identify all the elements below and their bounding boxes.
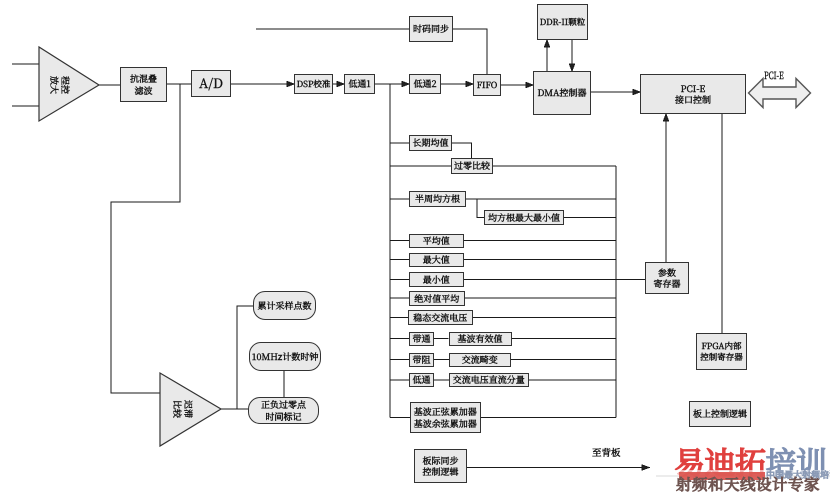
amplifier 程控放大 triangle	[39, 47, 99, 121]
rounded 累计采样点数	[253, 291, 316, 320]
wire row accumulators	[390, 417, 616, 419]
block 过零比较	[451, 158, 493, 174]
wire row min to param reg	[390, 279, 645, 281]
rounded 10MHz计数时钟	[249, 342, 321, 371]
wire DMA to DDR (arrow up)	[546, 46, 548, 71]
label 迟滞比较 (rotated)	[172, 386, 194, 432]
wire amp to filter	[99, 84, 120, 86]
wire input line 1	[12, 63, 39, 65]
wire row max	[390, 259, 616, 261]
watermark underline	[656, 475, 830, 477]
block FIFO	[473, 74, 501, 96]
block 低通1	[344, 74, 375, 94]
block 平均值	[409, 234, 465, 249]
wire row rms maxmin	[564, 217, 616, 219]
block 基波正弦累加器 基波余弦累加器	[410, 402, 481, 433]
wire right bus	[615, 166, 617, 418]
wire input line 2	[12, 105, 39, 107]
block FPGA内部控制寄存器	[696, 333, 747, 370]
wire param reg to PCI-E (arrow up)	[665, 120, 667, 262]
watermark big red 易迪拓培训	[674, 438, 827, 483]
watermark slate small text	[766, 468, 830, 481]
wire comparator out	[221, 408, 248, 410]
block 半周均方根	[409, 191, 466, 207]
block 均方根最大最小值	[484, 210, 564, 225]
block DSP校准	[294, 74, 333, 94]
label 至背板	[592, 445, 621, 459]
wire DSP to LP1 (arrow)	[333, 83, 338, 85]
wire to backplane (arrow)	[467, 467, 642, 469]
wire row lowpass	[390, 379, 616, 381]
wire row steady AC	[390, 317, 616, 319]
wire filter to A/D	[167, 83, 191, 85]
label PCI-E	[764, 67, 784, 82]
wire row bandpass	[390, 338, 616, 340]
wire LP1 to LP2 (arrow)	[375, 83, 402, 85]
wire DMA to PCI-E (arrow)	[591, 91, 633, 93]
block 交流畸变	[449, 353, 511, 367]
wire timecode to FIFO	[453, 29, 487, 74]
block 最小值	[409, 272, 465, 287]
wire row longterm mean	[390, 143, 472, 158]
block 带阻	[409, 353, 434, 367]
wire A/D to DSP (arrow)	[231, 83, 287, 85]
block 低通2	[409, 74, 441, 94]
wire FIFO to DMA (arrow)	[501, 84, 526, 86]
wire LP2 to FIFO (arrow)	[441, 83, 466, 85]
label 程控放大 (rotated)	[49, 62, 71, 108]
block 参数寄存器	[645, 262, 689, 294]
block 带通	[409, 332, 434, 346]
wire tap to comparator	[111, 84, 180, 393]
wire DDR to DMA (arrow down)	[571, 40, 573, 65]
block 绝对值平均	[409, 291, 465, 306]
block 板际同步控制逻辑	[414, 449, 467, 483]
rounded 正负过零点时间标记	[248, 397, 319, 424]
wire left bus	[389, 84, 391, 418]
watermark white band	[655, 470, 830, 479]
block 基波有效值	[449, 332, 512, 346]
block 低通	[409, 373, 434, 387]
wire branch to sample counter	[237, 306, 253, 409]
block PCI-E接口控制	[640, 74, 746, 114]
wire row bandstop	[390, 359, 616, 361]
wire row halfcycle rms	[390, 199, 616, 218]
wire row abs mean	[390, 297, 616, 299]
block A/D	[191, 70, 231, 97]
block 抗混叠滤波	[120, 67, 167, 102]
block 板上控制逻辑	[689, 401, 751, 427]
block 时码同步	[409, 16, 453, 42]
watermark red bar logo	[679, 472, 765, 480]
wire row mean	[390, 240, 616, 242]
block 交流电压直流分量	[449, 373, 529, 387]
PCI-E double block arrow	[749, 79, 811, 108]
block 稳态交流电压	[408, 310, 473, 325]
wire row zerocross compare	[390, 165, 616, 167]
comparator 迟滞比较 triangle	[160, 373, 221, 446]
wire timecode left stub	[256, 28, 409, 30]
watermark sub 射频和天线设计专家	[676, 473, 820, 495]
block 最大值	[409, 253, 465, 267]
block 长期均值	[409, 135, 452, 151]
block DDR-II颗粒	[537, 4, 588, 40]
block DMA控制器	[533, 71, 591, 115]
wire clock to zerocross marker	[283, 371, 285, 397]
wire PCI-E to FPGA reg	[721, 114, 723, 333]
